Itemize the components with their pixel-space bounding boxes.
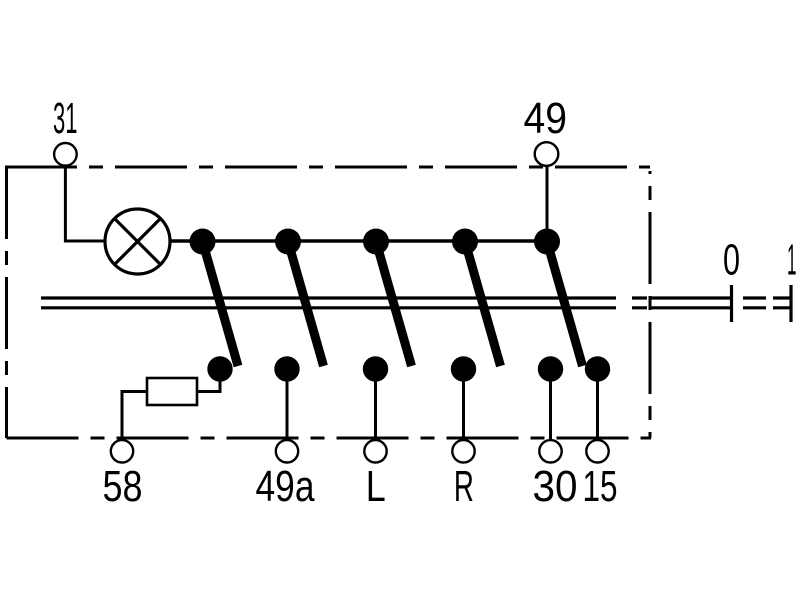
top contact node 2 (275, 229, 301, 255)
position mark 0 tick (730, 285, 733, 322)
wire terminal 31 to lamp (65, 164, 105, 241)
switch housing border top (5, 166, 650, 169)
wire contact to terminal L (374, 369, 377, 441)
bottom contact node 6 (585, 356, 610, 381)
top contact node 4 (452, 229, 478, 255)
svg-text:L: L (366, 462, 386, 511)
wire top contact bus (170, 239, 547, 242)
switch housing border left (5, 167, 8, 438)
terminal 30 (539, 440, 561, 462)
svg-text:R: R (454, 462, 474, 511)
bottom contact node 5 (538, 356, 563, 381)
top contact node 1 (190, 229, 216, 255)
switch arm 4 (465, 242, 501, 367)
switch arm 1 (203, 242, 239, 367)
switch arm 5 (547, 242, 583, 367)
svg-text:31: 31 (53, 94, 78, 143)
switch housing border bottom (7, 437, 652, 440)
terminal R (452, 440, 474, 462)
position mark 1 tick (789, 285, 792, 322)
svg-text:0: 0 (723, 236, 740, 285)
top contact node 5 (534, 229, 560, 255)
top contact node 3 (363, 229, 389, 255)
wire resistor to terminal 58 (122, 392, 147, 442)
svg-text:30: 30 (533, 462, 578, 511)
svg-text:58: 58 (103, 462, 143, 511)
wire terminal 49 to contact (546, 164, 549, 238)
svg-text:15: 15 (583, 462, 618, 511)
wire contact to terminal 49a (286, 369, 289, 441)
bottom contact node 3 (363, 356, 388, 381)
lamp E1 (indicator light) (105, 209, 170, 274)
switch arm 2 (288, 242, 324, 367)
svg-text:1: 1 (787, 236, 797, 285)
wire contact to resistor (197, 369, 220, 392)
bottom contact node 1 (207, 356, 232, 381)
resistor R1 (147, 378, 197, 405)
bottom contact node 2 (274, 356, 299, 381)
terminal 58 (111, 440, 133, 462)
terminal L (364, 440, 386, 462)
switch housing border right (649, 171, 652, 438)
terminal 49 (535, 142, 559, 166)
bottom contact node 4 (451, 356, 476, 381)
svg-text:49: 49 (524, 94, 568, 143)
terminal 15 (586, 440, 608, 462)
terminal 31 (54, 143, 77, 166)
wire contact to terminal R (462, 369, 465, 441)
wire contact to terminal 30 (549, 369, 552, 441)
travel bar double line (41, 298, 790, 308)
switch arm 3 (376, 242, 412, 367)
terminal 49a (276, 440, 298, 462)
svg-text:49a: 49a (256, 462, 315, 511)
wire contact to terminal 15 (596, 369, 599, 441)
